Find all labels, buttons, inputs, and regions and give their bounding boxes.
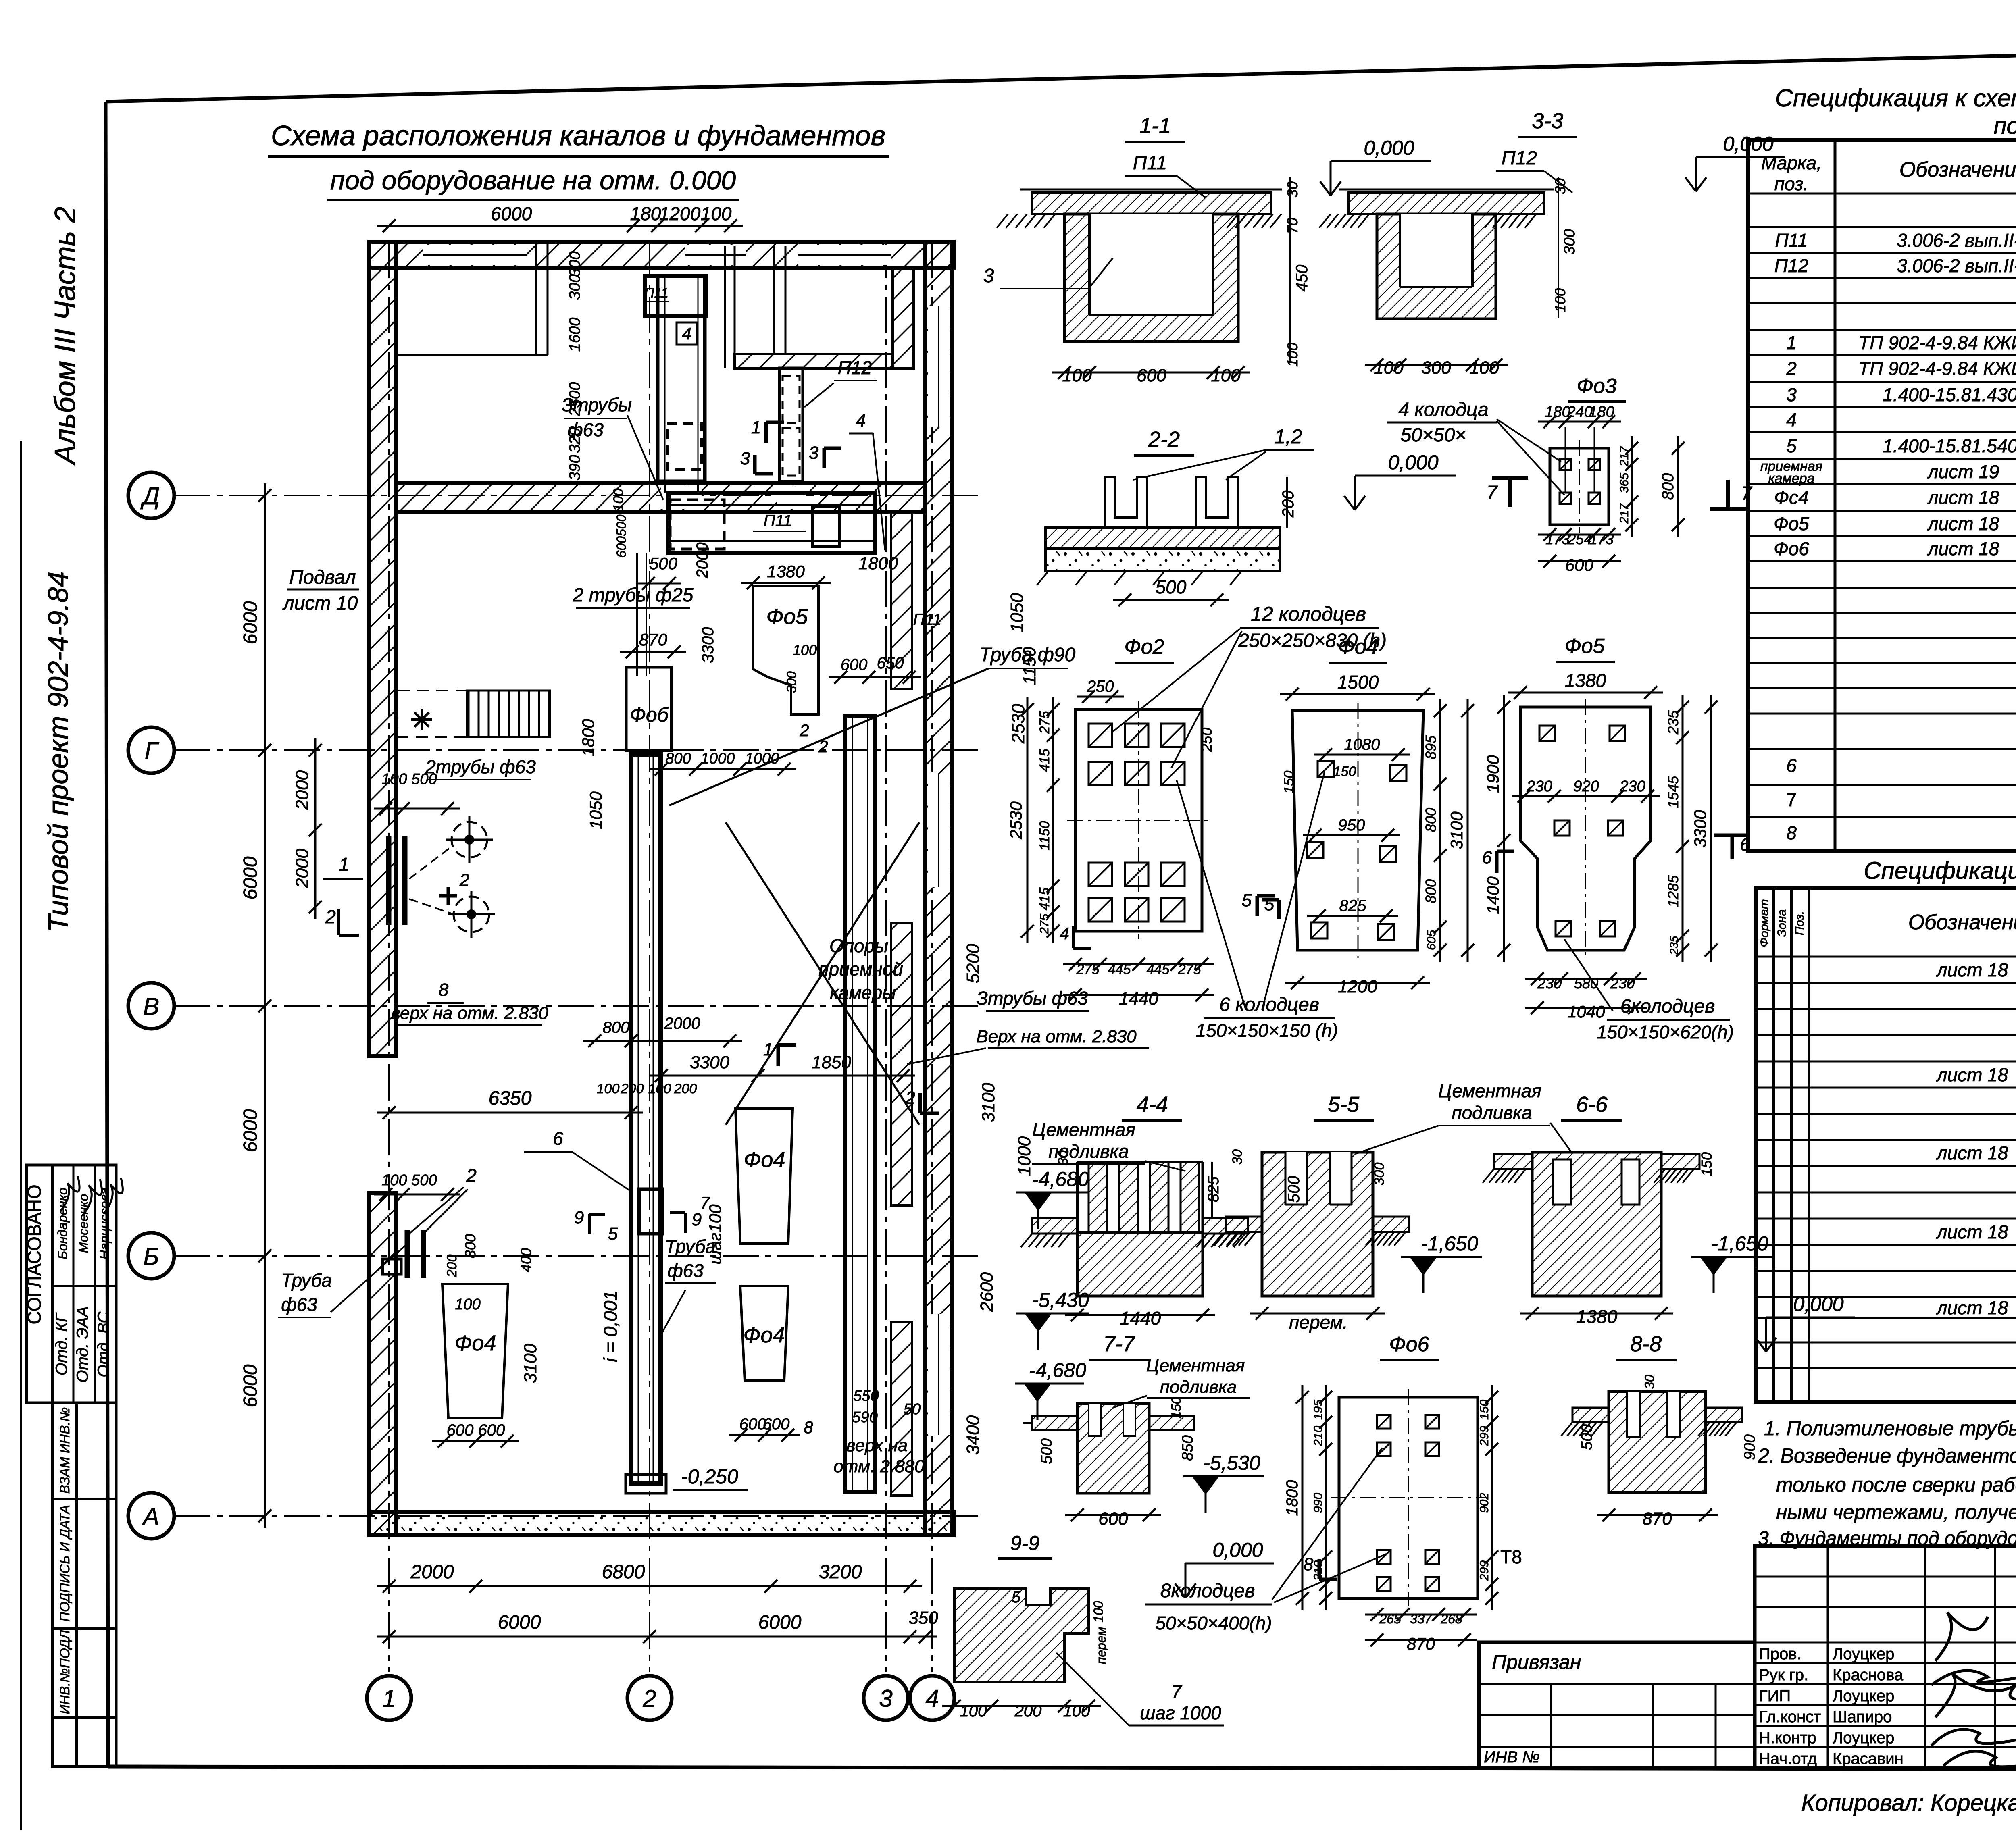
svg-text:2: 2: [799, 721, 809, 740]
svg-text:0,000: 0,000: [1388, 451, 1438, 474]
detail Fo5 left dims: [1503, 695, 1505, 962]
svg-text:600: 600: [739, 1415, 766, 1433]
svg-text:300: 300: [566, 274, 583, 300]
detail Fo4 bottom dim 1200: [1285, 982, 1430, 984]
svg-text:2000: 2000: [694, 543, 711, 579]
wall: internal on axis D: [396, 483, 925, 512]
detail Fo6 bottom dims: [1365, 1614, 1477, 1616]
wall plate at axis B: [383, 1259, 401, 1274]
channel: main longitudinal: [631, 754, 660, 1483]
svg-text:Цементная: Цементная: [1032, 1119, 1135, 1140]
svg-text:173: 173: [1545, 531, 1570, 547]
svg-text:-0,250: -0,250: [681, 1465, 738, 1488]
section 4-4 slab arms: [1032, 1218, 1077, 1234]
section 2-2 channels above slab: [1105, 477, 1147, 528]
plan: dims 3300 1850 (mid lower): [649, 1075, 915, 1077]
stamp signatures squiggles: [60, 1176, 79, 1211]
detail Fo5 body: [1520, 707, 1651, 950]
svg-text:217: 217: [1618, 446, 1631, 467]
stair dashes room: [398, 691, 467, 737]
svg-text:2000: 2000: [292, 770, 312, 810]
svg-text:6800: 6800: [602, 1561, 645, 1583]
svg-text:7: 7: [1487, 482, 1498, 504]
svg-text:-4,680: -4,680: [1029, 1359, 1086, 1382]
svg-text:50: 50: [904, 1401, 921, 1418]
svg-text:3100: 3100: [521, 1344, 540, 1383]
foundation Fo6 (plan): [626, 667, 671, 751]
section 1-1 channel body: [1064, 214, 1238, 341]
svg-text:825: 825: [1205, 1176, 1222, 1202]
svg-text:3400: 3400: [963, 1415, 983, 1455]
plan: vertical grid axes: [388, 242, 390, 1672]
svg-text:Пров.: Пров.: [1759, 1645, 1801, 1663]
section 7-7 bottom dim 600: [1065, 1514, 1161, 1516]
svg-text:150×150×620(h): 150×150×620(h): [1597, 1022, 1734, 1042]
title block: privyazan box: [1479, 1642, 1755, 1768]
plate P11 dashed lower: [667, 424, 702, 470]
svg-text:1,2: 1,2: [1274, 425, 1302, 448]
svg-text:8: 8: [1304, 1554, 1314, 1574]
main drawing frame: [106, 44, 2016, 102]
svg-text:1-1: 1-1: [1139, 114, 1171, 138]
svg-text:Подвал: Подвал: [289, 567, 356, 588]
svg-text:отм. 2.880: отм. 2.880: [833, 1456, 925, 1476]
svg-text:ИНВ №: ИНВ №: [1484, 1748, 1540, 1766]
svg-text:8-8: 8-8: [1630, 1332, 1662, 1356]
svg-text:300: 300: [1421, 358, 1451, 378]
svg-text:150: 150: [1698, 1152, 1715, 1176]
svg-text:3100: 3100: [1447, 811, 1466, 849]
svg-text:4 колодца: 4 колодца: [1398, 399, 1488, 420]
section 6-6 slab arms: [1494, 1154, 1532, 1169]
svg-text:850: 850: [1179, 1435, 1196, 1461]
svg-text:0,000: 0,000: [1793, 1293, 1843, 1315]
svg-text:4: 4: [682, 324, 691, 343]
svg-text:825: 825: [1339, 897, 1366, 915]
detail Fo3 bottom dims: [1538, 534, 1621, 536]
dim 1380 over Fo5: [741, 582, 831, 584]
svg-text:600: 600: [478, 1421, 505, 1439]
svg-text:-1,650: -1,650: [1421, 1232, 1478, 1255]
svg-text:6000: 6000: [758, 1612, 802, 1633]
section 5-5 slab arms: [1226, 1217, 1262, 1232]
section 1-1 floor slab: [1032, 193, 1271, 214]
svg-text:30: 30: [1230, 1149, 1245, 1165]
section 4-4 bottom dim 1440: [1065, 1314, 1215, 1316]
svg-text:800: 800: [1422, 879, 1439, 903]
svg-text:275: 275: [1037, 711, 1052, 734]
svg-text:шаг 1000: шаг 1000: [1140, 1702, 1221, 1723]
svg-text:только после сверки рабочих: только после сверки рабочих чертежей фун…: [1776, 1473, 2016, 1496]
svg-text:Спецификация к схеме расположе: Спецификация к схеме расположения канало…: [1775, 84, 2016, 112]
section 3-3 channel body: [1377, 214, 1496, 319]
svg-text:Формат: Формат: [1758, 899, 1771, 947]
svg-text:под оборудование: под оборудование: [1994, 113, 2016, 139]
svg-text:Отд. ВС: Отд. ВС: [95, 1311, 112, 1377]
svg-text:ГИП: ГИП: [1759, 1687, 1791, 1705]
svg-text:1400: 1400: [1483, 876, 1502, 914]
svg-text:350: 350: [908, 1608, 938, 1628]
svg-text:3300: 3300: [699, 627, 717, 663]
svg-text:2000: 2000: [664, 1015, 700, 1032]
svg-text:ТП 902-4-9.84 КЖИ МН6: ТП 902-4-9.84 КЖИ МН6: [1858, 332, 2016, 353]
svg-text:лист 18: лист 18: [1936, 1297, 2008, 1318]
detail Fo4 body (trapezoid): [1292, 711, 1423, 950]
svg-text:0,000: 0,000: [1212, 1539, 1263, 1561]
svg-text:2530: 2530: [1008, 704, 1028, 744]
svg-text:6000: 6000: [498, 1612, 541, 1633]
svg-text:150: 150: [1281, 771, 1297, 794]
title block: signature squiggles: [1931, 1612, 2016, 1767]
svg-text:3300: 3300: [690, 1053, 729, 1072]
svg-text:265: 265: [1379, 1612, 1401, 1626]
svg-text:2: 2: [325, 906, 336, 927]
svg-text:30: 30: [1056, 1150, 1071, 1165]
section 1-1 bottom dims: [1052, 372, 1250, 374]
svg-text:2000: 2000: [410, 1561, 454, 1583]
svg-text:Опоры: Опоры: [829, 935, 888, 956]
svg-text:2: 2: [1786, 358, 1797, 379]
svg-text:800: 800: [1659, 473, 1677, 500]
svg-text:-1,650: -1,650: [1711, 1232, 1768, 1255]
plan: dims 800 1000 1000 under Fo5: [649, 768, 796, 770]
section 2-2 floor slab: [1045, 528, 1280, 549]
svg-text:230: 230: [1537, 975, 1562, 992]
svg-text:200: 200: [444, 1255, 460, 1278]
channel: horizontal below axis D: [669, 493, 875, 553]
svg-text:П11: П11: [1133, 152, 1167, 174]
svg-text:Фоб: Фоб: [630, 703, 669, 726]
svg-text:500: 500: [1038, 1438, 1055, 1464]
svg-text:8: 8: [804, 1418, 813, 1437]
svg-text:Фо5: Фо5: [1564, 635, 1605, 658]
detail Fo6 body: [1339, 1397, 1478, 1598]
channel P12 vertical: [779, 368, 803, 481]
svg-text:1: 1: [1786, 332, 1797, 353]
section 7-7 body: [1077, 1404, 1149, 1493]
svg-text:Красавин: Красавин: [1833, 1750, 1904, 1768]
svg-text:5: 5: [1242, 890, 1252, 910]
svg-text:Фо4: Фо4: [1338, 635, 1378, 659]
partition wall right of channel: [724, 246, 726, 368]
svg-text:600: 600: [1098, 1509, 1128, 1529]
svg-text:Спецификация к монолитным фун: Спецификация к монолитным фундаментам: [1864, 857, 2016, 884]
detail Fo4 right dims: [1439, 699, 1441, 962]
svg-text:1: 1: [339, 854, 349, 875]
svg-text:лист 19: лист 19: [1927, 461, 1999, 482]
detail Fo4 inner dims: [1314, 754, 1410, 756]
svg-text:365: 365: [1618, 473, 1631, 493]
svg-text:1050: 1050: [1007, 593, 1027, 632]
svg-text:12 колодцев: 12 колодцев: [1251, 603, 1366, 625]
svg-text:Д: Д: [140, 483, 160, 510]
svg-text:Б: Б: [143, 1243, 159, 1270]
svg-text:1440: 1440: [1120, 1308, 1161, 1329]
svg-text:2 трубы ф25: 2 трубы ф25: [573, 585, 694, 606]
svg-text:Марка,: Марка,: [1761, 152, 1822, 173]
svg-text:50×50×: 50×50×: [1401, 424, 1466, 446]
svg-text:П11: П11: [764, 512, 792, 530]
svg-text:180: 180: [1589, 404, 1614, 420]
svg-text:1380: 1380: [767, 562, 805, 581]
detail Fo2 top dim 250: [1077, 696, 1124, 698]
svg-text:лист 18: лист 18: [1927, 538, 1999, 559]
svg-text:50×50×400(h): 50×50×400(h): [1155, 1612, 1272, 1633]
svg-text:подливка: подливка: [1160, 1377, 1237, 1397]
svg-text:299: 299: [1478, 1426, 1491, 1446]
svg-text:150: 150: [1333, 764, 1356, 779]
svg-text:ВЗАМ ИНВ.№: ВЗАМ ИНВ.№: [57, 1407, 72, 1494]
svg-text:лист 18: лист 18: [1936, 1142, 2008, 1163]
svg-text:100: 100: [381, 1172, 407, 1189]
svg-text:2трубы ф63: 2трубы ф63: [425, 756, 536, 777]
svg-text:3-3: 3-3: [1532, 109, 1563, 133]
svg-text:Мосеенко: Мосеенко: [76, 1194, 91, 1253]
svg-text:Схема расположения каналов и ф: Схема расположения каналов и фундаментов: [271, 120, 885, 151]
svg-text:445: 445: [1108, 962, 1131, 977]
svg-text:Фо4: Фо4: [744, 1323, 785, 1347]
svg-text:лист 10: лист 10: [282, 593, 358, 614]
svg-text:1900: 1900: [1483, 755, 1502, 793]
svg-text:200: 200: [621, 1081, 644, 1096]
wall: corridor inner segments: [891, 512, 912, 689]
svg-text:П12: П12: [1774, 255, 1809, 276]
plan: left dimension chain 6000 x4: [264, 483, 266, 1528]
plates on channel (dashed + bold): [670, 500, 724, 549]
svg-text:100: 100: [1469, 358, 1499, 378]
svg-text:230: 230: [1610, 975, 1635, 992]
svg-text:Рук гр.: Рук гр.: [1759, 1666, 1808, 1684]
svg-text:2: 2: [459, 870, 469, 890]
svg-text:250: 250: [1087, 678, 1114, 695]
svg-text:500: 500: [649, 554, 678, 573]
svg-text:ф63: ф63: [667, 1260, 704, 1281]
svg-text:1380: 1380: [1565, 670, 1606, 691]
svg-text:1.400-15.81.540-09: 1.400-15.81.540-09: [1883, 435, 2016, 456]
svg-text:9: 9: [574, 1208, 584, 1228]
svg-text:6000: 6000: [240, 1109, 261, 1152]
svg-text:173: 173: [1589, 531, 1614, 547]
svg-text:902: 902: [1478, 1493, 1491, 1513]
wall: right exterior: [925, 242, 952, 1535]
plan: bottom dimension chain 2000 6800 3200: [377, 1585, 922, 1587]
svg-text:1600: 1600: [566, 318, 583, 352]
foundation Fo4 left (plan): [442, 1284, 508, 1418]
svg-text:3: 3: [879, 1685, 892, 1712]
detail Fo5 bottom dims: [1525, 978, 1647, 980]
section 8-8 body: [1609, 1392, 1706, 1492]
svg-text:230: 230: [1526, 778, 1552, 795]
svg-text:8колодцев: 8колодцев: [1160, 1580, 1255, 1602]
svg-text:200: 200: [674, 1081, 697, 1096]
svg-text:1800: 1800: [1283, 1480, 1301, 1516]
svg-text:30: 30: [1552, 178, 1568, 194]
svg-text:перем.: перем.: [1289, 1312, 1348, 1333]
svg-text:П11: П11: [644, 285, 669, 301]
svg-text:200: 200: [1014, 1702, 1042, 1720]
svg-text:100: 100: [1284, 343, 1301, 367]
svg-text:Альбом III Часть 2: Альбом III Часть 2: [49, 207, 81, 466]
foundation Fo4 lower right (plan): [740, 1286, 788, 1381]
svg-text:150×150×150 (h): 150×150×150 (h): [1196, 1020, 1338, 1041]
svg-text:300: 300: [1561, 229, 1578, 254]
title block: signature table: [1755, 1546, 2016, 1768]
svg-text:6колодцев: 6колодцев: [1620, 996, 1715, 1017]
hatch marks flower: [411, 718, 432, 721]
svg-text:217: 217: [1618, 503, 1631, 524]
svg-text:600: 600: [1137, 366, 1166, 385]
foundation Fo4 upper right (plan): [735, 1109, 793, 1244]
svg-text:Обозначение: Обозначение: [1899, 158, 2016, 181]
svg-text:500: 500: [1285, 1176, 1303, 1203]
detail Fo4 top dim 1500: [1280, 693, 1435, 695]
svg-text:П12: П12: [1502, 148, 1537, 169]
svg-text:П11: П11: [1775, 230, 1808, 251]
svg-text:6000: 6000: [240, 601, 261, 644]
svg-text:100: 100: [597, 1081, 620, 1096]
plate P11 at channel top: [645, 276, 706, 316]
svg-text:195: 195: [1312, 1400, 1325, 1420]
svg-text:6000: 6000: [491, 203, 532, 224]
svg-text:1000: 1000: [1014, 1136, 1034, 1176]
svg-text:2000: 2000: [292, 849, 312, 888]
svg-text:верх на: верх на: [846, 1436, 908, 1455]
svg-text:3.006-2 вып.II-2: 3.006-2 вып.II-2: [1897, 230, 2016, 251]
svg-text:150: 150: [1169, 1397, 1183, 1419]
svg-text:Фо2: Фо2: [1124, 635, 1164, 659]
detail Fo6 right dims: [1491, 1385, 1493, 1610]
svg-text:7: 7: [1171, 1681, 1182, 1702]
svg-text:2500: 2500: [566, 382, 583, 417]
plan: horizontal grid axes: [174, 495, 980, 496]
svg-text:337: 337: [1410, 1612, 1432, 1626]
svg-text:Н.контр: Н.контр: [1759, 1729, 1816, 1747]
svg-text:ИНВ.№ПОДЛ: ИНВ.№ПОДЛ: [57, 1630, 72, 1714]
svg-text:235: 235: [1668, 936, 1680, 955]
svg-text:Лоуцкер: Лоуцкер: [1833, 1729, 1894, 1747]
svg-text:Фо3: Фо3: [1577, 375, 1616, 398]
svg-text:Привязан: Привязан: [1492, 1651, 1581, 1673]
section 9-9 bottom dims: [942, 1705, 1101, 1707]
pipe pair near axis B (lower): [405, 1230, 410, 1278]
svg-text:895: 895: [1422, 735, 1439, 759]
node 6 detail on channel: [639, 1189, 662, 1234]
detail Fo5 top dim 1380: [1508, 692, 1663, 694]
svg-text:254: 254: [1567, 531, 1592, 547]
channel: upper vertical (P11): [658, 276, 705, 481]
detail Fo5 inner dims 230 920 230: [1512, 795, 1660, 797]
svg-text:3300: 3300: [1691, 810, 1710, 848]
svg-text:100: 100: [701, 203, 732, 224]
svg-text:8: 8: [1786, 822, 1797, 843]
svg-text:600: 600: [1565, 556, 1594, 574]
svg-text:5200: 5200: [963, 944, 983, 983]
section 3-3 floor slab: [1349, 193, 1544, 214]
svg-text:Цементная: Цементная: [1438, 1080, 1541, 1101]
svg-text:2. Возведение фундаментов по: 2. Возведение фундаментов под оборудован…: [1758, 1444, 2016, 1467]
svg-text:5: 5: [1786, 435, 1797, 456]
svg-text:8: 8: [439, 980, 449, 1000]
svg-text:275: 275: [1076, 962, 1100, 977]
svg-text:650: 650: [877, 654, 904, 672]
svg-text:2-2: 2-2: [1148, 427, 1180, 451]
svg-text:Обозначение: Обозначение: [1908, 911, 2016, 934]
section 3-3 bottom dims: [1365, 364, 1508, 366]
svg-text:подливка: подливка: [1452, 1102, 1532, 1123]
svg-text:П11: П11: [913, 611, 942, 628]
section 7-7 slab arms: [1032, 1416, 1077, 1430]
detail Fo3 right dims: [1631, 436, 1633, 537]
svg-text:поз.: поз.: [1774, 173, 1809, 194]
plan: dimension chain 2000 2000: [314, 738, 317, 919]
section 2-2 dim 500: [1113, 599, 1229, 601]
svg-text:800: 800: [665, 750, 691, 767]
svg-text:100: 100: [1211, 366, 1241, 385]
svg-text:камера: камера: [1768, 471, 1815, 486]
svg-text:4: 4: [925, 1685, 939, 1712]
svg-text:1800: 1800: [858, 553, 898, 573]
svg-text:Отд. ЭАА: Отд. ЭАА: [74, 1306, 92, 1382]
svg-text:275: 275: [1038, 914, 1051, 934]
svg-text:6-6: 6-6: [1576, 1092, 1608, 1117]
svg-text:лист 18: лист 18: [1936, 1064, 2008, 1085]
svg-text:299: 299: [1478, 1560, 1491, 1581]
stair flight upper left: [468, 691, 470, 737]
svg-text:1440: 1440: [1119, 989, 1158, 1009]
svg-text:605: 605: [1425, 930, 1438, 950]
svg-text:ф63: ф63: [281, 1294, 317, 1315]
svg-text:Нарциссова: Нарциссова: [97, 1188, 112, 1259]
svg-text:Т8: Т8: [1500, 1546, 1522, 1567]
svg-text:320: 320: [566, 427, 583, 453]
wall: bottom exterior (concrete): [369, 1512, 954, 1535]
detail Fo6 left dims: [1325, 1385, 1327, 1610]
section 6-6 body: [1532, 1152, 1661, 1296]
channel risers between channels: [664, 481, 666, 493]
svg-text:1200: 1200: [659, 203, 701, 224]
svg-text:СОГЛАСОВАНО: СОГЛАСОВАНО: [24, 1185, 45, 1325]
svg-text:Лоуцкер: Лоуцкер: [1833, 1687, 1894, 1705]
svg-text:6 колодцев: 6 колодцев: [1219, 994, 1319, 1015]
spec table 1 grid: [1748, 140, 2016, 851]
svg-text:4-4: 4-4: [1137, 1092, 1168, 1117]
svg-text:Цементная: Цементная: [1146, 1356, 1245, 1375]
svg-text:800: 800: [462, 1234, 479, 1258]
svg-text:лист 18: лист 18: [1927, 513, 1999, 534]
wall: top exterior: [369, 242, 954, 268]
plan: dim 6350: [377, 1112, 643, 1114]
svg-text:-5,530: -5,530: [1203, 1452, 1260, 1474]
svg-text:5: 5: [1264, 895, 1275, 914]
section 9-9 body: [954, 1588, 1089, 1682]
svg-text:i = 0,001: i = 0,001: [600, 1290, 621, 1362]
svg-text:камеры: камеры: [830, 982, 896, 1003]
plan: bottom dimension chain 6000 6000 350: [377, 1636, 937, 1638]
svg-text:1545: 1545: [1665, 776, 1681, 808]
svg-text:2: 2: [905, 1088, 915, 1108]
svg-text:1: 1: [763, 1040, 773, 1059]
svg-text:100: 100: [648, 1081, 671, 1096]
svg-text:1040: 1040: [1567, 1002, 1605, 1021]
svg-text:950: 950: [1338, 816, 1365, 834]
detail Fo3 top dims: [1538, 421, 1621, 423]
svg-text:415: 415: [1037, 888, 1052, 911]
svg-text:1150: 1150: [1037, 821, 1052, 850]
svg-text:Фо6: Фо6: [1389, 1333, 1429, 1356]
svg-text:100: 100: [611, 489, 626, 512]
svg-text:30: 30: [1642, 1375, 1657, 1389]
svg-text:7-7: 7-7: [1103, 1332, 1135, 1356]
